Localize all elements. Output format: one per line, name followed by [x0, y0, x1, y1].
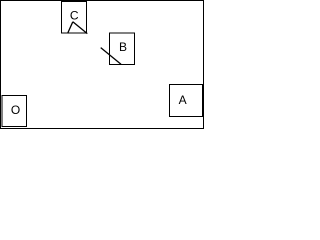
svg-text:C: C: [70, 9, 79, 23]
svg-text:A: A: [179, 93, 187, 107]
node C box: [62, 2, 87, 34]
edge C left leg: [68, 22, 73, 34]
node B box: [110, 33, 135, 65]
outer frame: [1, 1, 204, 129]
svg-text:O: O: [11, 103, 20, 117]
node O box: [2, 96, 27, 127]
node A box: [170, 85, 203, 117]
svg-text:B: B: [119, 40, 127, 54]
edge into B: [101, 48, 121, 65]
edge C right leg: [73, 22, 88, 34]
